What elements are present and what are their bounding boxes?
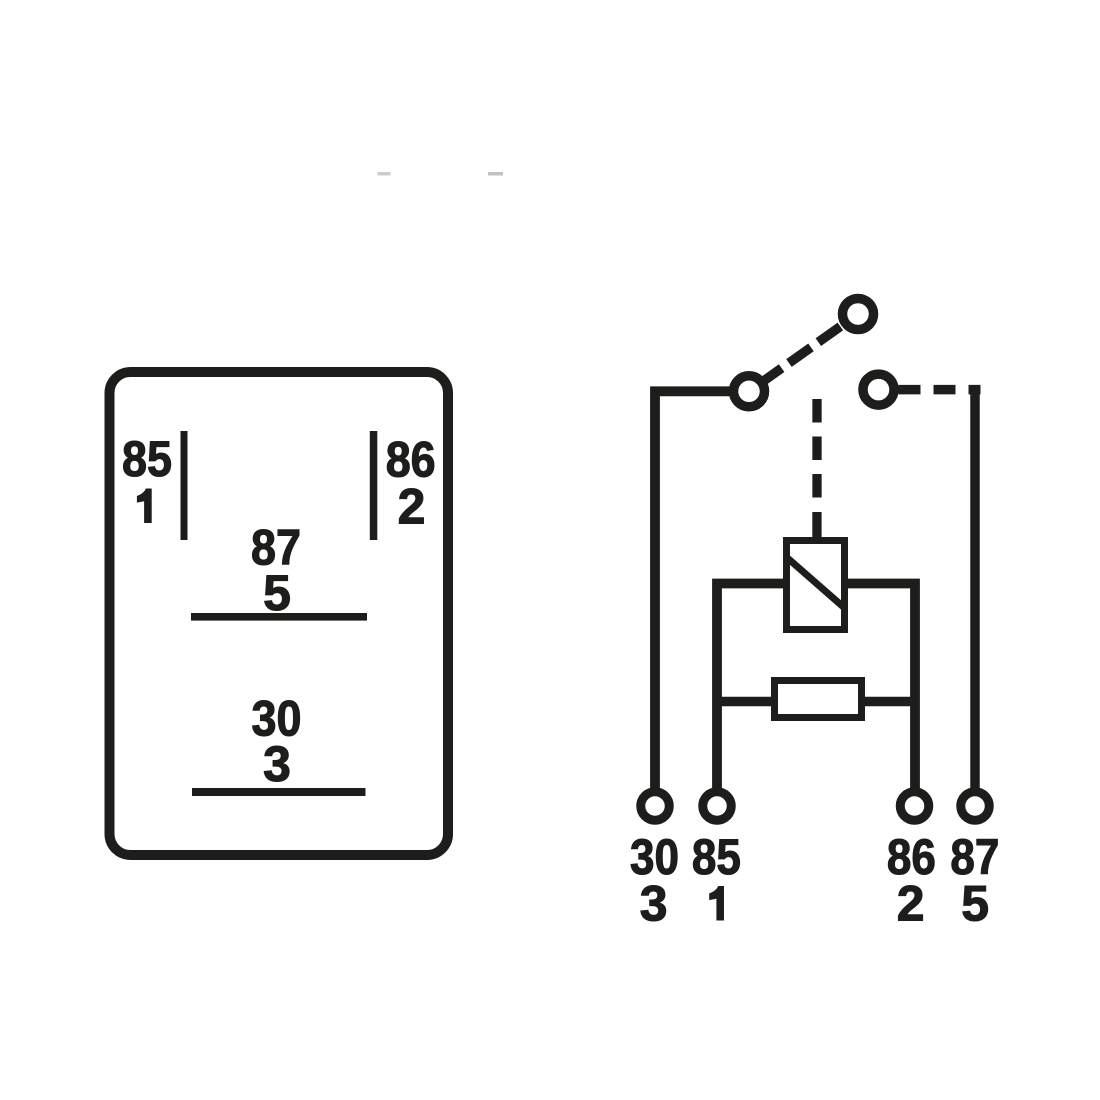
coil armature link (dashed) bbox=[812, 399, 821, 500]
relay base outline (bottom view) bbox=[110, 372, 449, 855]
wire: switch contact to terminal 87 riser (dashed) bbox=[879, 385, 981, 395]
switch output contact circle bbox=[863, 374, 894, 405]
resistor R1 bbox=[775, 681, 862, 718]
terminal 30/3 bbox=[641, 792, 670, 821]
terminal 85/1 bbox=[703, 792, 732, 821]
svg-text:2: 2 bbox=[398, 479, 426, 535]
pin slot bar 87/5 bbox=[191, 613, 367, 621]
pin label 1 bbox=[137, 489, 152, 524]
wire: coil bus with branch risers to terminals 85 and 86 bbox=[717, 584, 915, 793]
faint print artifact right bbox=[488, 172, 503, 176]
pin slot bar 30/3 bbox=[192, 788, 366, 796]
pin slot bar 86/2 bbox=[370, 431, 378, 540]
terminal 87/5 bbox=[961, 792, 990, 821]
terminal label 1 bbox=[709, 886, 724, 921]
svg-text:2: 2 bbox=[897, 876, 925, 932]
wire: terminal 30 riser and top run to switch common bbox=[655, 391, 749, 792]
faint print artifact left bbox=[378, 172, 391, 176]
terminal 86/2 bbox=[900, 792, 929, 821]
pin slot bar 85/1 bbox=[181, 431, 188, 540]
svg-text:5: 5 bbox=[263, 565, 291, 621]
svg-text:85: 85 bbox=[692, 829, 741, 885]
switch open contact circle (rest position) bbox=[843, 299, 874, 330]
coil K1 bbox=[787, 541, 845, 630]
svg-text:3: 3 bbox=[263, 736, 291, 792]
svg-text:3: 3 bbox=[640, 876, 668, 932]
switch common contact circle bbox=[734, 376, 765, 407]
wire: resistor bus bbox=[717, 697, 915, 707]
wire: terminal 87 riser bbox=[970, 390, 980, 792]
switch movable arm (dashed) bbox=[749, 314, 858, 391]
coil diagonal stripe bbox=[788, 559, 844, 608]
svg-text:5: 5 bbox=[961, 876, 989, 932]
coil armature link final dash bbox=[812, 512, 821, 538]
svg-text:85: 85 bbox=[122, 431, 172, 487]
